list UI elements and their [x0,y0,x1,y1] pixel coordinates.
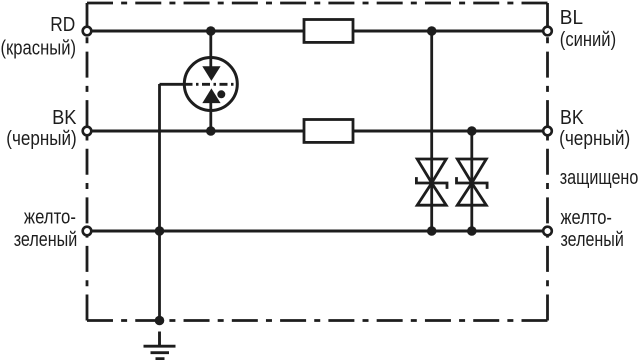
GDT center electrode dash-dot line [185,83,238,86]
resistor R2 [304,120,353,143]
junction: GDT top on L1 [206,26,216,36]
gas discharge tube F1 [160,31,238,131]
GDT electrode arrow bottom [202,88,220,103]
terminal: left L2 [83,127,92,136]
svg-text:(красный): (красный) [1,36,77,59]
svg-text:(синий): (синий) [560,28,616,51]
svg-text:BL: BL [560,6,583,29]
GDT electrode arrow top [202,66,220,81]
junction: V2 top on L2 [467,126,477,136]
terminal: left L1 [83,27,92,36]
junction: GDT bottom on L2 [206,126,216,136]
GDT gas indicator dot [217,90,225,98]
resistor R1 [304,20,353,43]
junction: ground exit on enclosure border [155,316,165,326]
svg-text:BK: BK [560,106,584,129]
svg-text:RD: RD [50,13,75,36]
svg-text:(черный): (черный) [6,127,76,150]
wire: vertical lead from GDT electrode to ground rail [158,84,161,321]
wire: GDT top stem [209,31,212,67]
enclosure dashed border bottom side [87,319,548,322]
wire: TVS V2 branch vertical [470,131,473,231]
ground [144,332,176,359]
junction: V1 bottom on PE line [427,226,437,236]
wire: TVS V1 branch vertical [430,31,433,231]
enclosure dashed border right side [546,3,549,321]
svg-text:зеленый: зеленый [14,228,78,251]
terminal: right L2 [543,127,552,136]
wire: middle line L2 [87,130,548,133]
wire: GDT left electrode lead [160,83,186,86]
terminal: right PE [543,227,552,236]
svg-text:защищено: защищено [560,166,639,189]
svg-text:зеленый: зеленый [561,228,624,251]
enclosure dashed border left side [86,3,89,321]
svg-text:желто-: желто- [24,206,76,229]
terminal: left PE [83,227,92,236]
junction: ground lead on PE line [155,226,165,236]
wire: bottom line PE [87,230,548,233]
terminal: right L1 [543,27,552,36]
svg-text:BK: BK [52,106,77,129]
suppressor diode V1 (bidirectional) [416,159,447,205]
suppressor diode V2 (bidirectional) [457,159,488,205]
wire: GDT bottom stem [209,103,212,132]
wire: top line L1 [87,30,548,33]
junction: V1 top on L1 [427,26,437,36]
svg-text:желто-: желто- [561,206,612,229]
enclosure dashed border top side [87,2,548,5]
junction: V2 bottom on PE line [467,226,477,236]
svg-text:(черный): (черный) [559,127,630,150]
